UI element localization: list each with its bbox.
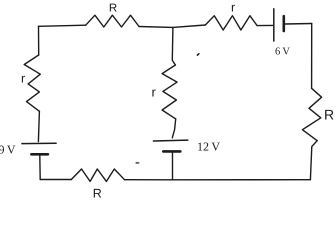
stray dot mark bbox=[136, 162, 138, 164]
wire B3 to bottom-left corner bbox=[39, 156, 41, 180]
resistor r2 (top right) bbox=[205, 16, 257, 30]
wire top-left horizontal bbox=[39, 25, 86, 26]
wire bottom middle segment bbox=[125, 179, 173, 181]
svg-text:r: r bbox=[21, 71, 25, 85]
wire B1 to top-right corner bbox=[285, 23, 312, 26]
svg-text:R: R bbox=[93, 187, 102, 201]
resistor r6 (left) bbox=[24, 55, 40, 111]
wire right vertical upper bbox=[311, 24, 313, 89]
wire B2 to node B bbox=[172, 153, 174, 180]
resistor R1 (top) bbox=[86, 15, 139, 27]
node A (top middle T-junction) bbox=[172, 26, 174, 28]
svg-text:9 V: 9 V bbox=[0, 142, 16, 156]
svg-text:r: r bbox=[231, 1, 235, 15]
battery B2 12V negative plate bbox=[163, 150, 180, 153]
battery B3 9V negative plate bbox=[31, 153, 48, 156]
svg-text:R: R bbox=[109, 3, 117, 15]
wire middle vertical from node A bbox=[172, 27, 175, 65]
resistor R4 (bottom) bbox=[71, 169, 124, 181]
wire r5 to battery B2 bbox=[172, 119, 175, 138]
wire left vertical upper bbox=[38, 26, 40, 55]
resistor r5 (middle) bbox=[162, 65, 177, 119]
resistor R3 (right) bbox=[302, 88, 321, 140]
node B (bottom middle junction) bbox=[172, 179, 174, 181]
battery B3 9V positive plate bbox=[22, 142, 56, 144]
wire bottom right segment bbox=[173, 179, 311, 181]
wire r6 to battery B3 bbox=[38, 111, 39, 141]
svg-text:r: r bbox=[152, 85, 157, 100]
battery B2 12V positive plate bbox=[153, 139, 187, 142]
stray tick mark near node A bbox=[197, 54, 199, 56]
wire bottom left segment bbox=[40, 179, 71, 181]
wire R1 to node A bbox=[139, 26, 173, 29]
svg-text:R: R bbox=[324, 106, 334, 122]
svg-text:6 V: 6 V bbox=[275, 47, 290, 58]
battery B1 6V negative plate bbox=[282, 16, 285, 31]
wire r2 to battery B1 bbox=[257, 24, 273, 26]
svg-text:12 V: 12 V bbox=[197, 140, 220, 154]
wire right vertical lower bbox=[310, 141, 317, 180]
battery B1 6V positive plate bbox=[273, 9, 275, 41]
wire node A to r2 bbox=[173, 25, 205, 27]
